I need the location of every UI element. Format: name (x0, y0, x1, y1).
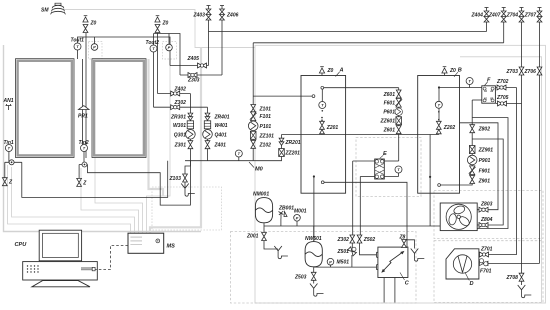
svg-text:Z704: Z704 (506, 13, 519, 19)
gauge P2 (166, 44, 173, 51)
check valve ZR401 (205, 113, 230, 120)
svg-text:Z403: Z403 (193, 13, 206, 19)
svg-text:Z402: Z402 (174, 86, 187, 92)
heat exchanger E (375, 151, 387, 179)
svg-text:Z901: Z901 (478, 179, 491, 185)
sensor Tin1 (4, 140, 14, 152)
module boundary bottom-left (dashed) (231, 232, 417, 304)
svg-text:AN1: AN1 (3, 98, 14, 104)
wire pump column 401 (207, 107, 209, 161)
valve Z303 (187, 73, 200, 84)
svg-text:Z201: Z201 (326, 125, 339, 131)
svg-text:Z501: Z501 (337, 249, 350, 255)
dashed link MS-CPU (95, 246, 128, 270)
wire Z0-1 column (85, 33, 87, 59)
sensor T4 (466, 78, 473, 85)
pump Q301 (174, 130, 195, 140)
wire suction manifold M0 (185, 160, 253, 162)
wire main bottom line (264, 225, 440, 227)
plant inner enclosure (light) (460, 57, 542, 302)
collector1 bottom sensor (9, 160, 14, 165)
wire hot supply line 1 (209, 22, 487, 32)
wire hot supply line 2 (253, 22, 504, 43)
damper unit D (446, 249, 479, 287)
svg-text:Z0: Z0 (327, 68, 334, 74)
wire Z8 drain (404, 240, 415, 249)
svg-text:Z406: Z406 (226, 13, 239, 19)
svg-text:W401: W401 (215, 123, 228, 129)
tank A (301, 68, 346, 194)
valve Z703 (506, 67, 524, 75)
svg-text:Z503: Z503 (294, 274, 307, 280)
svg-text:ZR201: ZR201 (285, 140, 301, 146)
wire return line mid (282, 134, 439, 136)
dots tank A (321, 117, 323, 121)
svg-text:NM001: NM001 (253, 192, 269, 198)
svg-text:Z701: Z701 (480, 246, 493, 252)
wire Z708 drain (521, 282, 523, 286)
safety valve Z0 collector 1 (83, 16, 97, 33)
svg-text:ZZ201: ZZ201 (285, 151, 301, 157)
wire collector2 outlet to Z303 (154, 34, 181, 76)
node tank A top (321, 86, 324, 89)
signal wire collector2 right (149, 59, 164, 196)
gauge T exchanger E (395, 166, 402, 173)
sensor T tank A (319, 102, 326, 112)
sensor Tin2 (79, 140, 89, 152)
junction tank A dip (313, 175, 315, 177)
svg-text:ZZ101: ZZ101 (259, 133, 275, 139)
vent valve Z707 (524, 8, 542, 23)
wire tank A vent stem (321, 73, 323, 76)
solar sensor SM (41, 3, 66, 14)
svg-text:NW501: NW501 (305, 236, 322, 242)
device ZZ101 (250, 131, 274, 139)
wire collector1 outlet riser (78, 37, 171, 66)
svg-text:Z703: Z703 (506, 69, 519, 75)
vent valve Z407 (488, 8, 506, 23)
wire tank B dip line (429, 135, 431, 227)
svg-text:F101: F101 (260, 114, 272, 120)
wire E port top-right (384, 160, 399, 162)
valve Z8 with drain (399, 235, 425, 262)
filter F601 (384, 98, 403, 107)
pyranometer PR1 (78, 106, 89, 120)
mixing valve Z501 (337, 247, 357, 256)
svg-text:Z0: Z0 (162, 21, 169, 27)
wire Z201 stub (321, 131, 323, 135)
sensor Tout1 (71, 38, 85, 51)
wire Z702 line (496, 87, 517, 89)
gauge P1 (91, 44, 98, 51)
drain group boundary (dotted) (152, 187, 222, 230)
collector field enclosure (light) (4, 45, 202, 232)
wire Z0-2 column (157, 33, 159, 94)
svg-text:Z404: Z404 (471, 13, 484, 19)
svg-text:Z001: Z001 (246, 234, 259, 240)
flow meter W301 (173, 121, 194, 129)
wire Z303 line (180, 74, 222, 76)
svg-text:Z301: Z301 (174, 143, 187, 149)
tank B (418, 68, 462, 194)
signal wire SM to controller (64, 10, 255, 48)
signal wire P2 (147, 59, 171, 233)
wire Z804 line (472, 139, 503, 225)
wire collector1 return (22, 161, 168, 198)
node tank A inlet (312, 95, 315, 98)
wire collector1 bottom sensor line (5, 162, 22, 178)
pump Q401 (203, 130, 227, 140)
wire Z402 line (158, 93, 191, 95)
wire ZB001 stub (280, 219, 282, 227)
pump P101 (248, 121, 271, 131)
svg-text:P601: P601 (383, 110, 395, 116)
svg-text:Z601: Z601 (383, 92, 396, 98)
svg-text:Z706: Z706 (524, 69, 537, 75)
svg-text:M501: M501 (337, 260, 350, 266)
valve Z503 (294, 272, 324, 296)
junction tank B dip (429, 176, 431, 178)
sensor T tank B (435, 101, 442, 112)
wire Z103 branch (185, 161, 190, 188)
svg-text:F901: F901 (479, 168, 491, 174)
sensor box Tout1/P1 (dotted) (89, 42, 103, 60)
svg-text:Z302: Z302 (174, 100, 187, 106)
dots tank B (438, 119, 440, 121)
valve Z702 (496, 79, 509, 90)
wire E port bottom-left (360, 176, 375, 178)
wire gap pipe (82, 59, 84, 145)
wire pump column 301 (189, 94, 191, 161)
svg-text:Z707: Z707 (524, 13, 537, 19)
wire Z704 column (521, 22, 523, 273)
svg-text:Z502: Z502 (363, 237, 376, 243)
vent Z0 tank B (442, 67, 456, 74)
wire Z302 line (154, 106, 208, 108)
wire P2 stub (168, 34, 170, 45)
valve Z202 (436, 121, 455, 134)
valve Z602 (383, 126, 402, 134)
sensor Tout2 (146, 40, 160, 52)
wire Z502 to heater port1 (360, 243, 377, 255)
wire Z406 column (221, 20, 223, 75)
svg-text:ZB001: ZB001 (278, 206, 294, 212)
wire tank A sensor stem (321, 89, 323, 101)
svg-text:F: F (487, 78, 491, 84)
valve Z701 (480, 246, 493, 257)
safety valve Z0 collector 2 (155, 16, 169, 33)
valve Z803 (479, 202, 493, 213)
wire M501 stub (330, 265, 332, 267)
flow meter W401 (204, 121, 227, 129)
valve Z101 (251, 105, 271, 113)
gauge M501 (327, 258, 349, 265)
svg-text:MS: MS (167, 244, 176, 250)
gauge M001 (294, 209, 307, 222)
wire T4 stub (469, 85, 471, 88)
pump P601 (383, 108, 402, 116)
wire Z302-Z501 link (351, 243, 353, 268)
wire Z202 string (438, 88, 440, 135)
svg-text:Z0: Z0 (449, 68, 456, 74)
vent valve Z404 (471, 8, 489, 23)
junction tank B top (438, 86, 440, 88)
svg-text:Tin1: Tin1 (4, 140, 14, 146)
valve Z302 (171, 100, 186, 110)
controller MS (128, 233, 175, 253)
wire P1 stub (94, 37, 96, 44)
wire Z503 drain (313, 267, 315, 283)
flow meter F701 (479, 259, 491, 275)
signal wire collector1 bottom sensor (12, 167, 135, 233)
svg-text:P901: P901 (479, 158, 491, 164)
signal wire P1 (95, 59, 143, 233)
valve Z405 (187, 56, 207, 68)
vent valve Z704 (506, 8, 524, 23)
svg-text:Z202: Z202 (443, 125, 456, 131)
svg-text:Q401: Q401 (215, 132, 227, 138)
svg-text:E: E (383, 151, 387, 157)
plant enclosure (light) (255, 45, 546, 303)
svg-text:M0: M0 (255, 167, 264, 173)
wire stack601 column (398, 88, 400, 161)
safety valve ZB001 (278, 206, 294, 219)
wire E port top-left (353, 160, 375, 162)
node tank A out (321, 181, 324, 184)
svg-text:Z8: Z8 (399, 235, 406, 241)
node M0 (249, 162, 264, 173)
valve Z401 (205, 141, 226, 149)
wire F bottom-left port (472, 99, 482, 101)
expansion vessel NM001 (253, 192, 273, 223)
wire heater down pipes (384, 278, 395, 303)
heat exchanger F (482, 78, 496, 104)
svg-text:Z102: Z102 (259, 142, 272, 148)
svg-text:Z103: Z103 (169, 176, 182, 182)
drain valve Z collector2 (77, 178, 88, 186)
wire Z403 column (208, 20, 210, 66)
wire NW501 stub (313, 226, 315, 241)
wire M001 stub (296, 221, 298, 226)
wire Tin1 stub (8, 152, 10, 163)
valve Z804 (479, 217, 493, 227)
vent Z0 tank A (319, 67, 333, 74)
svg-text:Z405: Z405 (187, 56, 200, 62)
wire collector2 outlet riser (153, 34, 155, 108)
device ZZ201 (279, 149, 300, 157)
valve Z705 (496, 95, 509, 106)
wire stack901 column (439, 100, 472, 185)
svg-text:Z302: Z302 (337, 237, 350, 243)
valve Z901 (470, 176, 490, 185)
wire tank B to exchanger F (439, 87, 482, 89)
wire heater feed line (314, 266, 377, 268)
svg-text:Tin2: Tin2 (79, 140, 89, 146)
valve Z103 with drain (169, 174, 195, 196)
wire tank A node line to heater (323, 182, 407, 247)
valve Z502 (357, 235, 375, 243)
wire tank B vent stem (444, 73, 446, 76)
solar collector 1 (16, 59, 75, 158)
wire Z302 riser (352, 161, 354, 235)
svg-text:Z401: Z401 (214, 143, 227, 149)
svg-text:Z804: Z804 (480, 217, 493, 223)
wire fan port riser (472, 118, 508, 229)
wire Tin2 stub (83, 152, 85, 165)
svg-text:B: B (458, 68, 462, 74)
valve Z402 (171, 86, 186, 96)
electric heater C (377, 247, 410, 286)
svg-text:ZR401: ZR401 (214, 115, 230, 121)
svg-text:PR1: PR1 (78, 114, 88, 120)
svg-text:ZR301: ZR301 (170, 115, 186, 121)
wire T gauge stub on manifold (238, 157, 240, 161)
signal trunk band (150, 48, 201, 234)
wire collector2 bottom sensor line (79, 165, 87, 179)
expansion vessel NW501 (305, 236, 322, 267)
wire stack101 column (252, 43, 254, 161)
computer CPU (15, 230, 98, 287)
svg-text:ZZ901: ZZ901 (478, 148, 494, 154)
svg-text:Tout2: Tout2 (146, 40, 160, 46)
valve Z601 (383, 90, 402, 98)
device ZZ601 (380, 117, 402, 125)
svg-text:ZZ601: ZZ601 (380, 119, 396, 125)
pump P901 (467, 155, 490, 165)
module D boundary (dashed) (434, 241, 543, 303)
wire Z701 riser (479, 88, 517, 255)
wire collector2 return (88, 161, 191, 205)
svg-text:W301: W301 (173, 123, 186, 129)
svg-text:Z0: Z0 (90, 21, 97, 27)
wire E port bottom-right (384, 173, 398, 177)
fan unit (440, 203, 477, 231)
sensor box Tout2/P2 (dotted) (163, 42, 177, 60)
wire Z803 line (460, 123, 499, 210)
wire Z707 column (539, 22, 541, 263)
svg-text:Tout1: Tout1 (71, 38, 85, 44)
svg-text:F701: F701 (480, 268, 492, 274)
filter F901 (469, 166, 490, 175)
wire tank A dip line (313, 177, 315, 242)
svg-text:Z303: Z303 (187, 78, 200, 84)
svg-text:F601: F601 (384, 101, 396, 107)
wire Z001 drain (264, 241, 278, 249)
wire F701 line (479, 262, 540, 264)
svg-text:Z407: Z407 (488, 13, 501, 19)
svg-text:Z803: Z803 (480, 202, 493, 208)
svg-text:Z101: Z101 (259, 107, 272, 113)
wire Z502 riser (359, 177, 361, 236)
device ZZ901 (469, 146, 493, 154)
drain valve Z collector1 (2, 178, 13, 186)
wire Z705 line (496, 103, 522, 105)
valve Z708 with drain (506, 273, 532, 298)
anemometer AN1 (3, 98, 14, 110)
wire NM001 stub (263, 223, 265, 232)
valve Z302b (337, 235, 355, 243)
svg-text:Z705: Z705 (496, 95, 509, 101)
svg-text:Z708: Z708 (506, 275, 519, 281)
svg-text:SM: SM (41, 8, 49, 14)
valve Z301 (174, 141, 193, 149)
fan module boundary (dashed) (434, 191, 543, 239)
valve Z802 (470, 125, 490, 133)
check valve ZR301 (170, 113, 193, 120)
svg-text:D: D (470, 281, 474, 287)
svg-text:Q301: Q301 (174, 132, 186, 138)
module E boundary (dashed) (356, 138, 421, 197)
collector2 bottom sensor (82, 162, 87, 167)
svg-text:M001: M001 (294, 209, 307, 215)
vent valve Z403 (193, 6, 211, 21)
filter F101 (250, 112, 271, 121)
wire stack101 branch into tank A (253, 95, 313, 97)
wire tank A top line (322, 87, 398, 89)
signal wire Tin2 (81, 168, 139, 233)
wire ZR201 branch (253, 135, 281, 161)
valve Z102 (251, 140, 271, 148)
svg-text:Z802: Z802 (478, 127, 491, 133)
valve Z201 (320, 121, 339, 134)
check valve ZR201 (279, 138, 301, 146)
valve Z001 (246, 233, 288, 259)
wire Z405 line (170, 65, 209, 67)
solar collector 2 (92, 59, 146, 158)
signal wire Tin1 (8, 165, 131, 233)
vent valve Z406 (220, 6, 239, 21)
svg-text:CPU: CPU (15, 242, 28, 248)
valve Z706 (524, 67, 542, 75)
svg-text:Z702: Z702 (496, 79, 509, 85)
wire gap pipe 2 (85, 59, 87, 158)
node tank B out (438, 184, 441, 187)
sensor T on manifold (235, 150, 242, 157)
svg-text:Z601: Z601 (383, 128, 396, 134)
svg-text:P101: P101 (260, 124, 272, 130)
